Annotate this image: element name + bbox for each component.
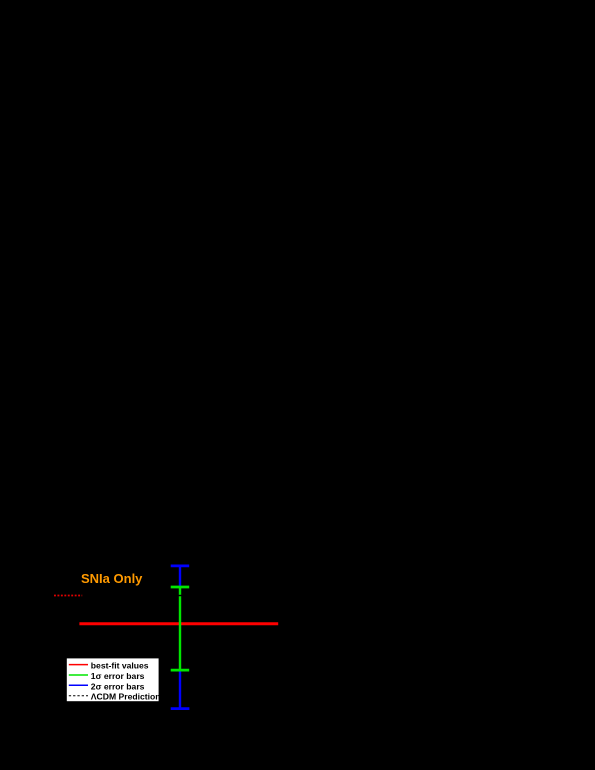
- best-fit red horizontal line: [79, 622, 278, 625]
- legend box: [67, 658, 159, 701]
- 2σ blue error bar lower stem: [179, 669, 181, 709]
- ΛCDM black dash crossing green stem: [178, 595, 181, 596]
- legend blue line sample: [69, 684, 88, 686]
- legend green line sample: [69, 674, 88, 676]
- 1σ green error bar top cap: [171, 586, 190, 589]
- 2σ blue error bar top cap: [171, 565, 190, 568]
- legend red line sample: [69, 664, 88, 666]
- svg-text:1σ error bars: 1σ error bars: [91, 671, 145, 681]
- 2σ blue error bar bottom cap: [171, 707, 190, 710]
- 1σ green error bar stem: [179, 587, 181, 670]
- legend black dashed line sample: [69, 695, 88, 697]
- 2σ blue error bar upper stem: [179, 566, 181, 588]
- ΛCDM prediction dashed red segment (left of axis): [54, 595, 82, 597]
- svg-text:best-fit values: best-fit values: [91, 661, 149, 671]
- 1σ green error bar bottom cap: [171, 669, 190, 672]
- svg-text:2σ error bars: 2σ error bars: [91, 681, 145, 691]
- svg-text:ΛCDM Prediction: ΛCDM Prediction: [91, 692, 161, 702]
- svg-text:SNIa Only: SNIa Only: [81, 571, 143, 586]
